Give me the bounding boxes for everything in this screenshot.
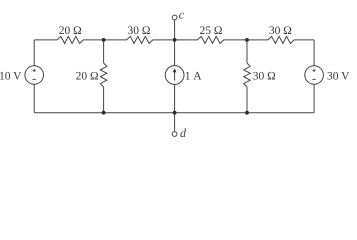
svg-text:d: d [180, 126, 187, 140]
svg-text:c: c [179, 8, 185, 22]
svg-text:10 V: 10 V [0, 70, 22, 82]
svg-text:A: A [193, 70, 202, 82]
svg-text:20 Ω: 20 Ω [76, 70, 99, 82]
svg-text:30 V: 30 V [327, 70, 350, 82]
svg-text:30 Ω: 30 Ω [269, 25, 292, 37]
svg-text:30 Ω: 30 Ω [253, 70, 276, 82]
svg-text:20 Ω: 20 Ω [59, 25, 82, 37]
svg-text:30 Ω: 30 Ω [128, 25, 151, 37]
svg-text:1: 1 [185, 70, 191, 82]
svg-text:25 Ω: 25 Ω [200, 25, 223, 37]
